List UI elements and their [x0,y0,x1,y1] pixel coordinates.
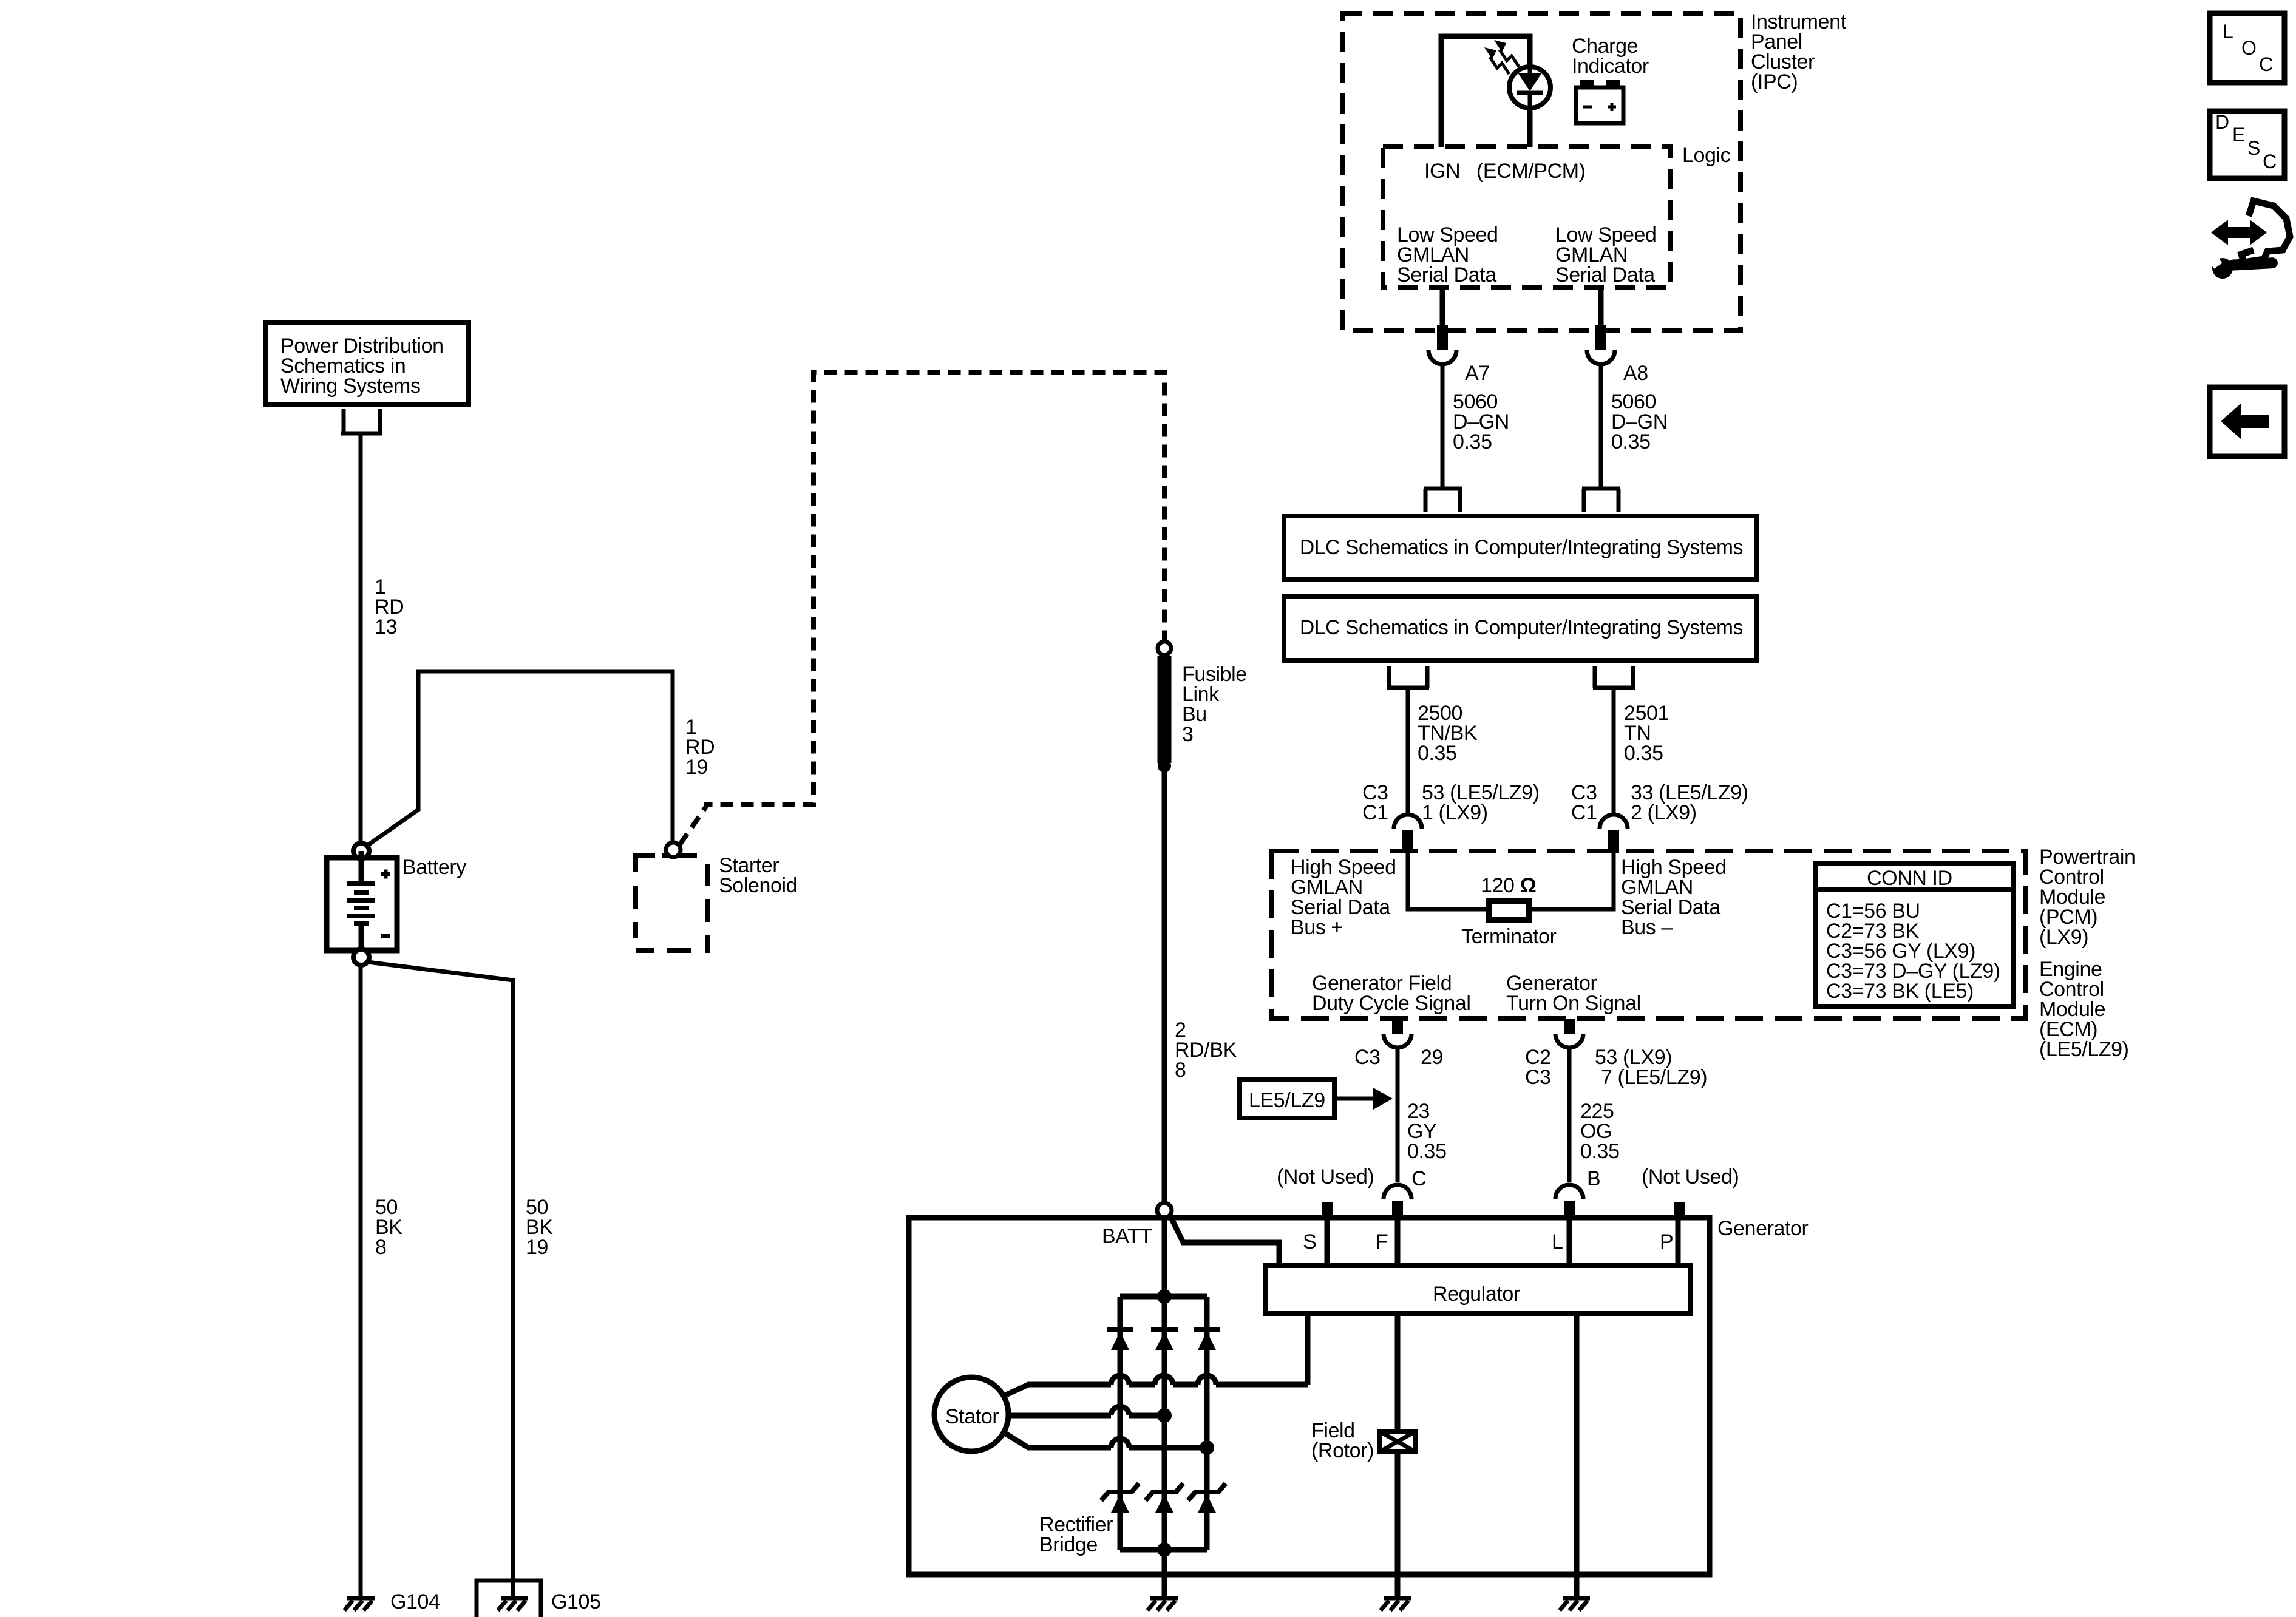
svg-text:Bus +: Bus + [1291,916,1343,939]
wire 1 RD 13 vertical [359,433,363,844]
wire 5060 D-GN right [1599,364,1603,489]
svg-text:Battery: Battery [402,856,466,879]
node battery negative [353,949,369,965]
stator phase 1 hump over leg 3 [1198,1375,1216,1385]
avalanche diode bottom leg 2 [1146,1483,1183,1513]
stator phase 2 hump over leg 1 [1111,1406,1129,1415]
rectifier leg 2 [1162,1297,1167,1550]
svg-text:Terminator: Terminator [1461,925,1557,948]
svg-text:1 (LX9): 1 (LX9) [1422,801,1488,824]
stator circle [934,1377,1008,1451]
svg-text:BATT: BATT [1102,1225,1152,1248]
instrument panel cluster dashed box [1342,13,1741,331]
box DLC Schematics 1 [1284,516,1757,580]
label Rectifier Bridge [1039,1513,1113,1556]
battery icon charge indicator [1576,80,1623,123]
label circuit 2501 TN 0.35 [1624,702,1669,765]
svg-text:CONN ID: CONN ID [1867,867,1952,890]
field rotor symbol [1379,1431,1416,1452]
svg-text:Logic: Logic [1682,144,1731,167]
svg-text:IGN: IGN [1424,160,1460,183]
label 2 RD/BK 8 [1175,1019,1237,1082]
label Powertrain Control Module (PCM) (LX9) [2039,846,2136,949]
label circuit 2500 TN/BK 0.35 [1418,702,1478,765]
svg-text:(Not Used): (Not Used) [1642,1165,1739,1188]
box DLC Schematics 2 [1284,597,1757,660]
fusible link Bu 3 [1158,642,1171,773]
wire L stub to regulator [1567,1218,1572,1266]
junction dot phase 2 leg 2 [1157,1408,1172,1423]
icon hand with wrench [2211,201,2290,279]
diode top leg 3 [1194,1329,1220,1350]
svg-text:Turn On Signal: Turn On Signal [1506,992,1641,1015]
diode top leg 2 [1151,1329,1178,1350]
stator phase 3 hump over leg 1 [1111,1439,1129,1448]
connector generator field duty cycle below PCM [1384,1019,1411,1048]
svg-text:0.35: 0.35 [1624,742,1663,765]
wire terminator right leg [1529,853,1614,909]
wire 5060 D-GN left [1441,364,1445,489]
wire 2501 TN [1612,688,1616,816]
wire 23 GY [1396,1048,1400,1182]
ground field [1381,1598,1411,1610]
junction dot top bus [1157,1289,1172,1304]
wire IPC pin A8 [1595,288,1606,350]
label C3 C1 left [1362,781,1388,824]
wire diagonal from battery positive node to 1 RD 19 riser [367,671,673,846]
avalanche diode bottom leg 3 [1188,1483,1226,1513]
svg-text:Serial Data: Serial Data [1555,263,1655,286]
box LE5/LZ9 flag [1240,1080,1334,1118]
wire charge indicator loop [1441,36,1530,147]
svg-text:(ECM/PCM): (ECM/PCM) [1476,160,1586,183]
label Engine Control Module (ECM) (LE5/LZ9) [2039,958,2129,1061]
wire 50 BK 8 to G104 [359,965,363,1596]
wire 2 RD/BK 8 from fusible link to generator [1162,766,1167,1297]
svg-text:8: 8 [1175,1059,1186,1082]
svg-text:(IPC): (IPC) [1751,70,1798,93]
svg-text:7 (LE5/LZ9): 7 (LE5/LZ9) [1601,1066,1707,1089]
svg-text:Serial Data: Serial Data [1397,263,1496,286]
ground generator main [1147,1598,1178,1610]
connector C3/C1 left into PCM [1394,815,1422,853]
logic dashed box [1383,147,1671,288]
label High Speed GMLAN Serial Data Bus + [1291,856,1396,939]
rectifier leg 3 [1204,1297,1210,1550]
svg-text:C3: C3 [1525,1066,1551,1089]
dashed wire solenoid to fusible link [680,372,1164,844]
generator box [909,1218,1710,1575]
label C3 C1 right [1571,781,1597,824]
connector A8 [1587,350,1615,364]
svg-text:L: L [1552,1230,1563,1253]
svg-text:Bridge: Bridge [1039,1533,1098,1556]
label Charge Indicator [1572,35,1649,78]
svg-text:0.35: 0.35 [1580,1140,1620,1163]
svg-text:B: B [1587,1167,1600,1190]
svg-text:8: 8 [375,1236,387,1259]
svg-text:O: O [2241,37,2257,59]
wire rectifier to ground [1162,1550,1167,1596]
label Generator Turn On Signal [1506,972,1641,1015]
starter solenoid dashed box [636,856,708,951]
ground G105 [498,1598,528,1610]
junction dot bottom bus [1157,1542,1172,1557]
svg-text:P: P [1660,1230,1673,1253]
svg-text:(Not Used): (Not Used) [1277,1165,1374,1188]
rectifier bottom bus [1120,1547,1207,1553]
arrow LE5/LZ9 flag [1334,1088,1393,1110]
label 50 BK 8 [375,1196,402,1259]
wire P stub to regulator [1676,1218,1681,1266]
label circuit 23 GY 0.35 [1407,1100,1447,1163]
svg-text:Regulator: Regulator [1433,1283,1520,1306]
label Low Speed GMLAN Serial Data right [1555,223,1657,286]
label IGN (ECM/PCM) [1424,160,1586,183]
label Field (Rotor) [1311,1419,1374,1462]
rectifier top bus [1120,1294,1207,1300]
bracket into DLC box 1 right [1582,489,1620,512]
svg-text:DLC Schematics in Computer/Int: DLC Schematics in Computer/Integrating S… [1300,536,1743,559]
svg-text:29: 29 [1421,1046,1443,1069]
pin stub P [1674,1202,1685,1219]
avalanche diode bottom leg 1 [1101,1483,1139,1513]
svg-text:C3=73 BK (LE5): C3=73 BK (LE5) [1826,980,1974,1003]
label pin 33 (LE5/LZ9) 2 (LX9) right [1631,781,1748,824]
diode top leg 1 [1107,1329,1133,1350]
svg-text:Solenoid: Solenoid [719,874,797,897]
pin stub S [1322,1202,1333,1219]
connector A7 [1428,350,1456,364]
icon DESC button [2210,111,2284,178]
svg-text:19: 19 [685,756,708,779]
label circuit 5060 D-GN 0.35 left [1453,390,1509,453]
stator phase 1 wire [1005,1385,1308,1395]
wire field rotor [1395,1314,1401,1596]
stator phase 1 hump over leg 1 [1111,1375,1129,1385]
connector B at generator [1555,1185,1583,1219]
wire 2500 TN/BK [1406,688,1410,816]
label 53 (LX9) 7 (LE5/LZ9) [1595,1046,1707,1089]
bracket into DLC box 1 left [1424,489,1462,512]
ground L [1560,1598,1590,1610]
box CONN ID [1815,863,2013,1006]
svg-text:A7: A7 [1465,362,1490,385]
svg-text:LE5/LZ9: LE5/LZ9 [1249,1089,1325,1112]
junction dot phase 3 leg 3 [1200,1440,1214,1455]
svg-text:C1: C1 [1362,801,1388,824]
bracket below DLC box 2 right [1593,666,1635,688]
label 1 RD 13 [375,575,404,639]
box Power Distribution Schematics in Wiring Systems [266,322,469,404]
svg-text:Stator: Stator [945,1405,999,1428]
svg-text:G104: G104 [390,1590,440,1613]
svg-text:0.35: 0.35 [1407,1140,1447,1163]
wire S stub to regulator [1325,1218,1330,1266]
svg-text:19: 19 [526,1236,548,1259]
svg-text:13: 13 [375,615,397,639]
svg-text:Indicator: Indicator [1572,55,1649,78]
svg-text:Bus –: Bus – [1621,916,1673,939]
wire 50 BK 19 to G105 [368,962,513,1596]
svg-text:G105: G105 [551,1590,601,1613]
svg-text:Duty Cycle Signal: Duty Cycle Signal [1312,992,1471,1015]
wire F stub to regulator [1395,1218,1401,1266]
svg-text:C1: C1 [1571,801,1597,824]
label circuit 225 OG 0.35 [1580,1100,1620,1163]
wire L to ground [1574,1314,1580,1596]
svg-text:Wiring Systems: Wiring Systems [280,375,421,398]
terminal circle starter solenoid [666,842,681,857]
label pin 53 (LE5/LZ9) 1 (LX9) left [1422,781,1540,824]
regulator box [1266,1266,1690,1314]
rectifier leg 1 [1118,1297,1123,1550]
LED light arrows [1484,40,1519,74]
powertrain control module dashed box [1271,851,2025,1019]
wire IPC pin A7 [1437,288,1448,350]
svg-text:S: S [1303,1230,1316,1253]
node battery positive [353,843,369,859]
svg-text:C3: C3 [1354,1046,1381,1069]
svg-text:0.35: 0.35 [1453,430,1492,453]
connector C at generator [1384,1185,1411,1219]
stator phase 2 wire [1008,1413,1164,1419]
label 1 RD 19 [685,716,715,779]
svg-text:Generator: Generator [1717,1217,1809,1240]
label C2 C3 pins [1525,1046,1551,1089]
label Starter Solenoid [719,854,797,897]
svg-text:S: S [2247,137,2260,159]
svg-text:D: D [2215,111,2229,133]
wire regulator to stator sense [1305,1314,1311,1385]
svg-text:C: C [2259,53,2273,75]
label 50 BK 19 [526,1196,553,1259]
label Low Speed GMLAN Serial Data left [1397,223,1498,286]
ground G105 splice box [477,1581,541,1617]
svg-text:C: C [1411,1167,1426,1190]
label Instrument Panel Cluster (IPC) [1751,10,1847,93]
svg-text:DLC Schematics in Computer/Int: DLC Schematics in Computer/Integrating S… [1300,616,1743,639]
connector C3/C1 right into PCM [1600,815,1628,853]
label High Speed GMLAN Serial Data Bus - [1621,856,1727,939]
connector generator turn on below PCM [1555,1019,1583,1048]
label Generator Field Duty Cycle Signal [1312,972,1471,1015]
svg-text:C: C [2263,151,2277,172]
bracket below Power Distribution box [341,409,382,433]
svg-text:(LE5/LZ9): (LE5/LZ9) [2039,1038,2129,1061]
label Fusible Link Bu 3 [1182,663,1247,746]
label circuit 5060 D-GN 0.35 right [1611,390,1668,453]
svg-text:L: L [2223,21,2233,42]
bracket below DLC box 2 left [1387,666,1429,688]
icon LOC button [2210,13,2284,83]
svg-text:2 (LX9): 2 (LX9) [1631,801,1697,824]
ground G104 [344,1598,375,1610]
wire 225 OG [1567,1048,1572,1182]
svg-text:0.35: 0.35 [1611,430,1651,453]
svg-text:3: 3 [1182,723,1194,746]
svg-text:F: F [1376,1230,1388,1253]
svg-text:E: E [2232,124,2245,146]
svg-text:A8: A8 [1623,362,1648,385]
icon back arrow button [2210,387,2284,456]
stator phase 3 wire [1005,1433,1207,1448]
svg-text:120 Ω: 120 Ω [1481,874,1536,897]
resistor terminator 120 ohm [1489,901,1529,920]
wire BATT to regulator [1170,1215,1279,1266]
wire terminator left leg [1408,853,1489,909]
battery B1 [327,851,397,957]
svg-text:(Rotor): (Rotor) [1311,1439,1374,1462]
stator phase 1 hump over leg 2 [1155,1375,1173,1385]
svg-text:(LX9): (LX9) [2039,926,2088,949]
svg-text:0.35: 0.35 [1418,742,1457,765]
node BATT [1157,1203,1172,1218]
LED charge indicator lamp [1509,67,1550,108]
